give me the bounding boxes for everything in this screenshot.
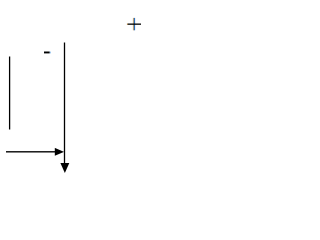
arrowhead: downward arrow at bottom of right vertical line	[60, 163, 69, 173]
wire: left vertical line	[9, 57, 11, 130]
wire: right vertical line	[64, 43, 66, 164]
arrowhead: horizontal arrow pointing right	[55, 148, 64, 156]
wire: horizontal arrow shaft	[6, 151, 56, 153]
minus polarity symbol	[44, 52, 51, 54]
plus polarity symbol (top right, subpixel-AA colored strokes)	[127, 18, 141, 30]
